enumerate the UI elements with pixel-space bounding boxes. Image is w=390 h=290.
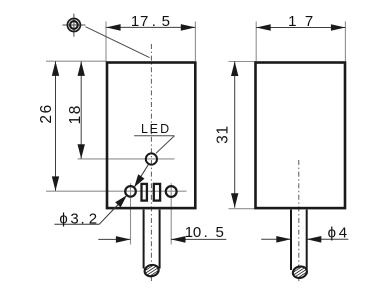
svg-text:1: 1 [214,126,231,135]
svg-text:10.5: 10.5 [185,224,224,241]
svg-text:1: 1 [67,116,84,125]
svg-text:8: 8 [67,106,84,115]
svg-text:3: 3 [214,135,231,144]
svg-text:ϕ3.2: ϕ3.2 [59,210,97,227]
svg-text:6: 6 [38,105,55,114]
svg-text:2: 2 [38,115,55,124]
svg-text:LED: LED [141,122,169,136]
